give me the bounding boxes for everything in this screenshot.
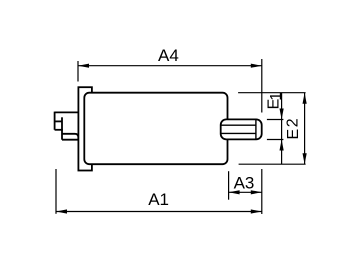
- svg-text:1: 1: [268, 92, 285, 101]
- svg-text:E: E: [285, 129, 302, 140]
- svg-text:2: 2: [285, 118, 302, 127]
- svg-text:A1: A1: [148, 190, 169, 209]
- svg-text:A4: A4: [158, 46, 179, 65]
- svg-text:A3: A3: [234, 174, 255, 193]
